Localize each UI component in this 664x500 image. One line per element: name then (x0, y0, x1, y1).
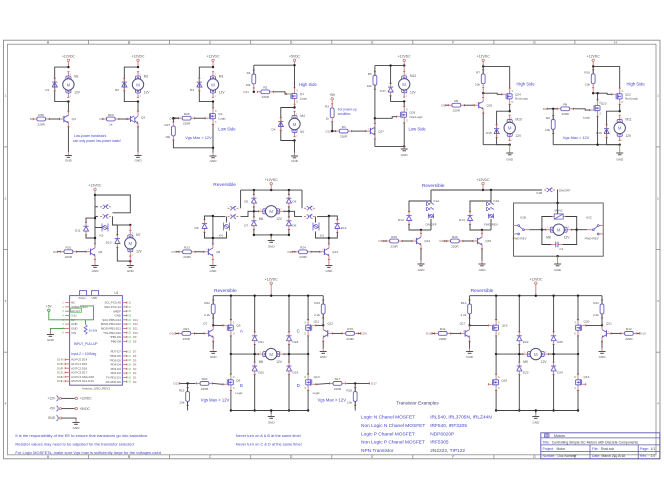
svg-text:D24: D24 (557, 370, 563, 374)
svg-text:Q15: Q15 (485, 239, 491, 243)
wire (254, 234, 289, 236)
wire (597, 93, 599, 100)
motor M8 (546, 224, 572, 235)
wire (601, 341, 603, 349)
svg-text:F: F (452, 455, 454, 459)
svg-text:File:: File: (592, 447, 598, 451)
svg-text:D6: D6 (53, 250, 57, 254)
svg-text:Q21: Q21 (606, 321, 612, 325)
wire (95, 206, 98, 208)
svg-text:Q23: Q23 (601, 102, 607, 106)
capacitor C1 (551, 244, 556, 246)
svg-text:Low-power transistors: Low-power transistors (74, 134, 107, 138)
wire (593, 65, 620, 67)
wire (403, 101, 405, 106)
resistor R30 (33, 118, 37, 120)
wire (420, 249, 422, 262)
svg-text:March 20, 2018: March 20, 2018 (602, 454, 626, 458)
wire (403, 123, 405, 146)
wire (542, 229, 546, 231)
svg-text:220R: 220R (346, 337, 354, 341)
pin VIN (65, 332, 70, 334)
wire (573, 109, 590, 110)
svg-text:Motor: Motor (557, 447, 567, 451)
svg-text:Number:: Number: (543, 454, 556, 458)
svg-text:B: B (240, 383, 243, 388)
svg-text:Rost.sch: Rost.sch (601, 447, 614, 451)
mosfet Q24 (509, 88, 511, 92)
wire (62, 397, 75, 399)
svg-text:R29: R29 (108, 113, 114, 117)
wire (137, 127, 139, 152)
ground (328, 262, 330, 266)
svg-text:NDP6020P: NDP6020P (430, 431, 454, 437)
wire (55, 67, 69, 102)
pin AREF (122, 310, 127, 312)
wire (432, 332, 435, 334)
wire (469, 341, 471, 349)
ground (270, 237, 272, 241)
svg-text:12V: 12V (516, 134, 523, 138)
wire (176, 332, 179, 334)
wire (547, 108, 557, 110)
svg-text:R14: R14 (440, 327, 446, 331)
svg-text:C: C (297, 328, 300, 333)
pin IOREF(VEV) (65, 306, 70, 308)
wire (328, 260, 330, 263)
relay K1A (427, 203, 429, 206)
svg-text:220R: 220R (453, 109, 461, 113)
svg-text:Q13: Q13 (332, 250, 338, 254)
wire (253, 190, 255, 195)
svg-text:R31: R31 (66, 246, 72, 250)
wire (270, 411, 272, 415)
svg-text:Q7: Q7 (203, 321, 207, 325)
wire (518, 345, 520, 362)
svg-text:R13: R13 (461, 301, 467, 305)
svg-text:M4: M4 (300, 114, 305, 118)
pin A2.PC2.D16 (65, 367, 70, 369)
svg-text:F: F (452, 41, 454, 45)
wire (284, 353, 308, 355)
svg-text:Power: Power (79, 297, 86, 300)
wire (95, 195, 130, 213)
svg-text:Reversible: Reversible (214, 288, 237, 294)
wire (230, 391, 232, 411)
svg-text:D6: D6 (292, 200, 296, 204)
wire (117, 247, 130, 261)
diode D14 (469, 212, 471, 216)
pin MISO-PB4-D12 (122, 323, 127, 325)
svg-text:D18: D18 (426, 332, 432, 336)
svg-text:R6: R6 (454, 99, 458, 103)
svg-text:220R: 220R (262, 95, 270, 99)
diode D7 (253, 217, 255, 221)
pin A3.PC3.D17 (65, 372, 70, 374)
wire (470, 224, 482, 230)
svg-text:R19: R19 (179, 388, 185, 392)
svg-text:Q16: Q16 (502, 324, 508, 328)
wire (593, 93, 612, 94)
pin SCL.PC5.A5 (122, 302, 127, 304)
wire (294, 104, 296, 107)
wire (557, 256, 559, 261)
svg-text:D8: D8 (543, 107, 547, 111)
transistor (204, 332, 209, 334)
wire (495, 336, 497, 354)
wire (307, 336, 309, 354)
wire (173, 140, 213, 148)
svg-text:GND: GND (73, 426, 81, 430)
svg-text:R17: R17 (335, 377, 341, 381)
svg-text:220R: 220R (65, 255, 73, 259)
svg-text:VIN: VIN (71, 331, 76, 335)
svg-text:D: D (512, 101, 514, 104)
svg-text:Controlling Simple DC Motors w: Controlling Simple DC Motors with Discre… (552, 441, 639, 445)
svg-text:+12VDC: +12VDC (587, 55, 600, 59)
resistor R20 (197, 382, 201, 384)
pin TX-PD1-D1 (122, 376, 127, 378)
pin PD3-D3 (122, 368, 127, 370)
wire (137, 102, 139, 112)
wire (253, 230, 255, 235)
svg-text:K3: K3 (320, 234, 324, 238)
title block (541, 433, 660, 459)
transistor Q8 (204, 251, 209, 253)
wire (95, 227, 102, 229)
wire (172, 118, 174, 122)
svg-text:Title:: Title: (543, 441, 550, 445)
wire (230, 336, 232, 354)
wire (535, 288, 537, 296)
svg-text:M11: M11 (626, 118, 632, 122)
svg-text:M3: M3 (219, 74, 224, 78)
svg-text:M2: M2 (144, 74, 149, 78)
wire (403, 66, 405, 72)
svg-text:Non Logic P Chanel MOSFET: Non Logic P Chanel MOSFET (361, 440, 425, 446)
pin RX-PD0-D0 (122, 381, 127, 383)
svg-text:D2: D2 (133, 371, 137, 375)
svg-text:D17: D17 (380, 89, 386, 93)
svg-text:FWD-REV: FWD-REV (513, 236, 527, 240)
svg-text:GND: GND (325, 269, 333, 273)
svg-text:GND: GND (209, 269, 217, 273)
svg-text:M1: M1 (74, 74, 79, 78)
svg-text:K5: K5 (100, 234, 104, 238)
ground (322, 348, 324, 352)
svg-text:D: D (304, 376, 306, 379)
svg-text:Vgs Max > 12V: Vgs Max > 12V (201, 397, 230, 402)
ground (481, 261, 483, 265)
motor M6 (258, 206, 284, 217)
diode D19 (288, 362, 290, 366)
wire (496, 353, 523, 355)
svg-text:D11: D11 (75, 229, 81, 233)
svg-text:High Side: High Side (299, 82, 318, 87)
svg-text:G: G (533, 455, 536, 459)
wire (284, 210, 289, 212)
svg-text:220R: 220R (390, 244, 398, 248)
svg-text:D8: D8 (133, 339, 137, 343)
inner loop box (542, 217, 553, 230)
svg-text:M: M (269, 352, 273, 357)
svg-text:GND: GND (48, 416, 56, 420)
pin 5V (65, 319, 70, 321)
motor M1 (63, 72, 74, 98)
svg-text:Rev. :: Rev. : (640, 454, 649, 458)
ground (509, 150, 511, 154)
wire (67, 127, 69, 152)
wire (253, 88, 255, 92)
svg-text:Logic: Logic (313, 391, 321, 395)
resistor R16 (322, 300, 324, 304)
svg-text:Logic: Logic (583, 116, 591, 120)
svg-text:+12VDC: +12VDC (265, 277, 278, 281)
pin A0.PC0.D14 (65, 359, 70, 361)
wire (322, 314, 324, 326)
svg-text:+5V: +5V (49, 407, 56, 411)
svg-text:condition: condition (338, 112, 351, 116)
svg-text:D: D (498, 376, 500, 379)
svg-text:GND: GND (599, 355, 607, 359)
svg-text:D19: D19 (293, 370, 299, 374)
wire (509, 145, 511, 150)
wire (469, 296, 471, 304)
wire (619, 66, 621, 88)
wire (601, 314, 603, 326)
svg-text:GND: GND (268, 245, 276, 249)
svg-text:D13: D13 (133, 318, 138, 322)
wire (254, 345, 256, 362)
svg-text:GND: GND (532, 421, 540, 425)
ground (94, 262, 96, 266)
svg-text:D: D (215, 110, 217, 113)
svg-text:+5VDC: +5VDC (80, 407, 91, 411)
resistor R26 (447, 240, 451, 242)
svg-text:R20: R20 (202, 377, 208, 381)
wire (213, 382, 223, 385)
svg-text:D5: D5 (244, 200, 248, 204)
wire (331, 104, 333, 109)
svg-text:Q14: Q14 (424, 239, 430, 243)
resistor R4 (336, 130, 340, 132)
svg-text:GND: GND (466, 355, 474, 359)
svg-text:R24: R24 (300, 246, 306, 250)
svg-text:Transistor Examples: Transistor Examples (396, 401, 439, 406)
svg-text:D: D (622, 101, 624, 104)
svg-text:Q4: Q4 (72, 117, 76, 121)
wire (270, 288, 272, 296)
svg-text:A5.PC5.SCL.D19: A5.PC5.SCL.D19 (71, 379, 94, 383)
svg-text:1k: 1k (109, 122, 113, 126)
wire (67, 65, 69, 68)
svg-text:220R: 220R (451, 244, 459, 248)
svg-text:R25: R25 (391, 235, 397, 239)
wire (482, 65, 484, 67)
wire (195, 251, 204, 253)
motor M3 (207, 72, 218, 98)
resistor R7 (482, 70, 484, 74)
resistor R11 (601, 300, 603, 304)
wire (199, 67, 213, 102)
svg-text:D9: D9 (441, 103, 445, 107)
svg-text:12V: 12V (541, 360, 548, 364)
mosfet Q6 (230, 374, 232, 378)
wire (577, 354, 579, 374)
ground (557, 261, 559, 265)
svg-text:D19: D19 (640, 332, 646, 336)
wire (213, 216, 226, 218)
svg-text:Reversible: Reversible (422, 183, 445, 189)
transistor Q27 (366, 130, 371, 132)
wire (375, 65, 404, 67)
wire (592, 65, 594, 67)
svg-text:D14: D14 (57, 358, 62, 362)
wire (577, 296, 579, 321)
wire (611, 332, 621, 334)
svg-text:R27: R27 (165, 123, 171, 127)
ground (294, 153, 296, 157)
relay contact K (228, 206, 239, 210)
wire (129, 225, 131, 231)
svg-text:D9: D9 (195, 226, 199, 230)
wire (230, 354, 232, 374)
svg-text:Date:: Date: (592, 454, 600, 458)
wire (294, 64, 296, 67)
ground (75, 419, 77, 423)
resistor R10 (592, 70, 594, 74)
svg-text:D: D (296, 101, 298, 104)
wire (430, 190, 432, 203)
svg-text:Arduino_UNO_REV3: Arduino_UNO_REV3 (82, 387, 111, 391)
svg-text:12V: 12V (136, 250, 143, 254)
wire (315, 217, 317, 223)
resistor R23 (179, 251, 183, 253)
wire (212, 216, 214, 244)
svg-text:D: D (574, 376, 576, 379)
wire (577, 336, 579, 354)
svg-text:R11: R11 (593, 301, 599, 305)
wire (509, 66, 511, 88)
pin GND (65, 327, 70, 329)
wire (431, 189, 542, 191)
svg-text:D: D (304, 332, 306, 335)
resistor R22 (212, 300, 214, 304)
pin A5.PC5.SCL.D19 (65, 380, 70, 382)
svg-text:Logic: Logic (218, 117, 226, 121)
wire (409, 201, 431, 212)
svg-text:D18: D18 (293, 340, 299, 344)
svg-text:Never turn on C & D at the sam: Never turn on C & D at the same time! (236, 441, 302, 446)
ground (212, 153, 214, 157)
diode D21 (254, 332, 256, 336)
svg-text:D15: D15 (57, 362, 62, 366)
svg-text:1.0: 1.0 (651, 454, 656, 458)
svg-text:+12V: +12V (47, 397, 55, 401)
varistor MOV1 (552, 216, 555, 218)
svg-text:Logic P Chanel MOSFET: Logic P Chanel MOSFET (361, 431, 415, 437)
svg-text:R2: R2 (263, 86, 267, 90)
wire (49, 118, 60, 120)
svg-text:R1: R1 (247, 71, 251, 75)
svg-text:PB0-D8: PB0-D8 (111, 339, 122, 343)
svg-text:+5VDC: +5VDC (289, 55, 301, 59)
svg-text:GND: GND (401, 153, 409, 157)
resistor R12 (621, 332, 625, 334)
wire (288, 375, 290, 411)
motor M2 (132, 72, 143, 98)
transistor Q4 (59, 118, 64, 120)
wire (124, 67, 138, 102)
wire (292, 251, 295, 253)
wire (226, 217, 228, 223)
resistor R18 (354, 388, 356, 392)
svg-text:R8: R8 (563, 103, 567, 107)
svg-text:+5V: +5V (329, 93, 336, 97)
diode D11 (85, 222, 87, 226)
wire (176, 251, 179, 253)
svg-text:A: A (240, 328, 243, 333)
svg-text:Q19: Q19 (584, 375, 590, 379)
svg-text:D5: D5 (133, 358, 137, 362)
svg-text:D11: D11 (244, 90, 250, 94)
pin PD7-D7 (122, 351, 127, 353)
motor M9 (523, 348, 549, 359)
svg-text:GND: GND (135, 159, 143, 163)
wire (482, 66, 484, 74)
ground (212, 262, 214, 266)
wire (240, 190, 242, 202)
transistor Q14 (412, 240, 417, 242)
svg-text:GND: GND (65, 159, 73, 163)
svg-text:D13: D13 (398, 218, 404, 222)
wire (383, 240, 386, 242)
svg-text:10k: 10k (179, 400, 184, 404)
svg-text:K4: K4 (219, 234, 223, 238)
svg-text:D21: D21 (258, 340, 264, 344)
svg-text:D8: D8 (292, 224, 296, 228)
svg-text:Q27: Q27 (378, 129, 384, 133)
svg-text:C1: C1 (559, 247, 563, 251)
svg-text:2.2k: 2.2k (314, 313, 320, 317)
svg-text:D15: D15 (173, 382, 179, 386)
pin *PD5-D5 (122, 359, 127, 361)
svg-text:R26: R26 (452, 235, 458, 239)
svg-text:D25: D25 (557, 340, 563, 344)
svg-text:Q6: Q6 (98, 250, 102, 254)
svg-text:M10: M10 (516, 118, 522, 122)
wire (67, 102, 69, 112)
wire (288, 206, 290, 217)
svg-text:M: M (136, 82, 140, 87)
svg-text:Input Z > 100Meg: Input Z > 100Meg (71, 352, 96, 356)
wire (231, 410, 308, 412)
svg-text:R9: R9 (546, 116, 550, 120)
wire (601, 296, 603, 304)
wire (597, 116, 599, 144)
svg-text:D10: D10 (106, 241, 112, 245)
ground (137, 152, 139, 156)
wire (76, 251, 86, 253)
relay K3 coil (313, 223, 319, 231)
wire (451, 332, 461, 334)
motor M7 (125, 231, 136, 257)
wire (329, 216, 337, 220)
transistor (461, 332, 466, 334)
svg-text:D10: D10 (326, 129, 332, 133)
module U1 Arduino (70, 296, 123, 386)
svg-text:R21: R21 (183, 327, 189, 331)
